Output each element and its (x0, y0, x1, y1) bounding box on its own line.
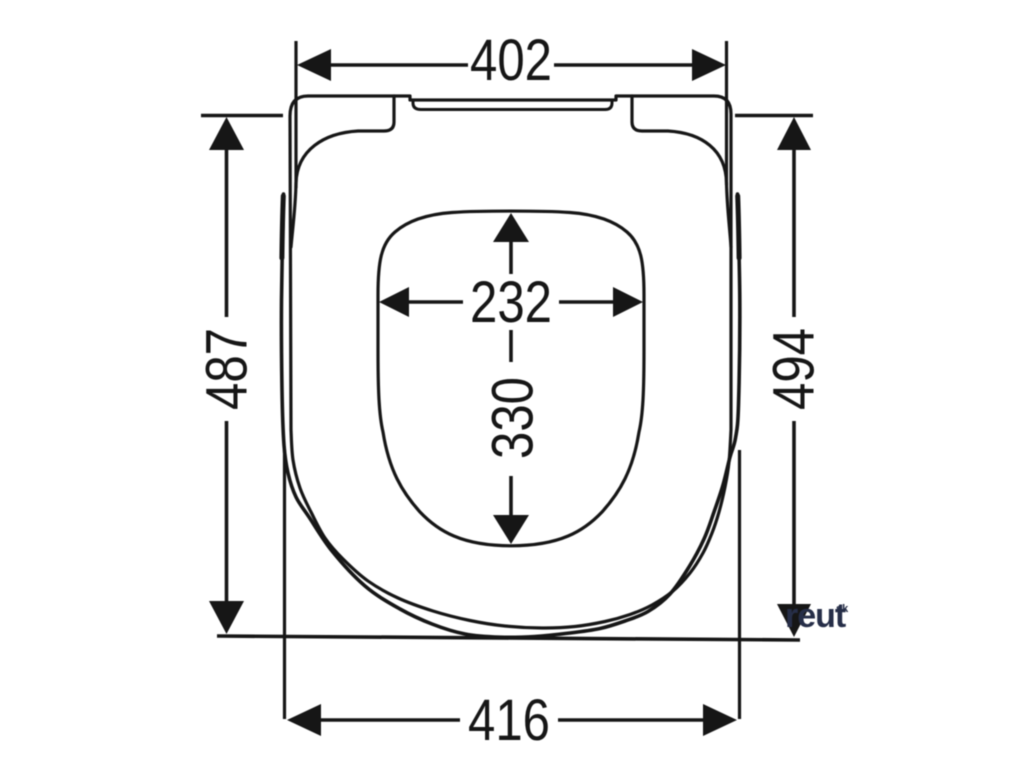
svg-text:416: 416 (468, 688, 550, 753)
svg-text:494: 494 (762, 328, 827, 410)
svg-text:402: 402 (470, 28, 552, 93)
svg-text:330: 330 (481, 377, 546, 459)
svg-text:232: 232 (470, 270, 552, 335)
svg-text:487: 487 (195, 328, 260, 410)
svg-text:sk: sk (836, 603, 849, 615)
